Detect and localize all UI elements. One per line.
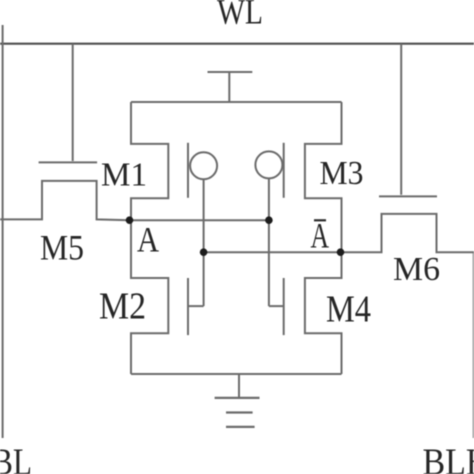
svg-text:BL: BL (0, 442, 32, 474)
svg-text:M1: M1 (101, 157, 147, 194)
wire node A to gates of M3 M4 (268, 178, 270, 306)
svg-text:WL: WL (217, 0, 263, 32)
wire node A-bar to gates of M1 M2 (203, 179, 205, 306)
svg-text:A: A (311, 216, 330, 256)
ground rail (box bottom) (131, 373, 342, 375)
wire WL to M5 gate (72, 44, 74, 161)
VDD supply (208, 72, 253, 102)
svg-text:M6: M6 (393, 251, 440, 288)
svg-text:M4: M4 (326, 289, 371, 331)
junction node A-bar to M1 M2 gate wire (200, 248, 208, 256)
junction node A to M3 M4 gate wire (265, 216, 273, 224)
svg-text:M5: M5 (40, 228, 84, 268)
svg-text:M3: M3 (320, 155, 364, 192)
node A-bar line (204, 251, 341, 253)
VDD rail (box top) (131, 101, 342, 103)
svg-text:BLB: BLB (423, 442, 474, 474)
node A line (130, 219, 269, 221)
bit line BLB (473, 252, 474, 438)
svg-text:A: A (137, 220, 159, 260)
transistor M1 (131, 102, 217, 220)
node A junction (126, 216, 134, 224)
transistor M4 (269, 252, 342, 374)
transistor M2 (131, 220, 204, 374)
word line WL (0, 43, 474, 45)
overbar of label A-bar (314, 219, 326, 221)
wire WL to M6 gate (400, 44, 402, 195)
node A-bar junction (337, 248, 345, 256)
bit line BL (2, 25, 4, 438)
transistor M5 (0, 162, 130, 220)
transistor M6 (341, 196, 474, 252)
svg-text:M2: M2 (99, 286, 146, 328)
transistor M3 (255, 102, 341, 252)
ground (215, 374, 260, 427)
